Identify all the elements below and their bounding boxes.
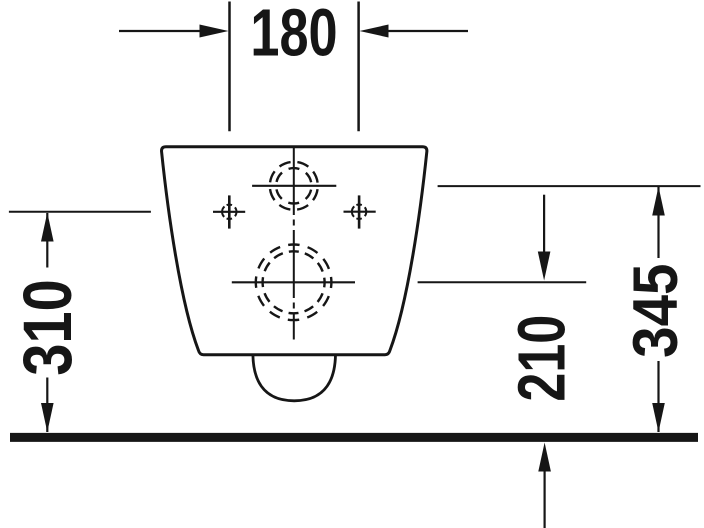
- dim 345: top extension line: [438, 185, 701, 187]
- lower hole inner dashed circle: [263, 251, 325, 313]
- dim text 345: [620, 264, 691, 358]
- dim 310: extension line: [9, 211, 151, 213]
- dim 345: dimension line: [657, 187, 659, 433]
- dim 310: dimension line: [46, 213, 48, 432]
- dim 210: down arrowhead: [538, 252, 551, 281]
- dim 210: lower pointer line below floor: [543, 470, 545, 528]
- dim text 310: [8, 279, 86, 376]
- left fixing hole crosshair: [213, 195, 245, 228]
- dim 210: extension line at drain center: [418, 281, 587, 283]
- dim 345: down arrowhead: [652, 403, 665, 432]
- floor line: [10, 433, 698, 442]
- dim 180: left extension line: [228, 2, 231, 132]
- outlet U shape: [253, 355, 336, 401]
- dim text 210: [504, 315, 579, 402]
- lower hole horizontal centerline: [232, 281, 355, 283]
- dim 210: upper pointer line: [543, 195, 545, 253]
- dim 345: up arrowhead: [652, 187, 665, 216]
- lower hole outer dashed circle: [256, 244, 332, 320]
- dim 180: right extension line: [357, 2, 360, 132]
- dim 310: up arrowhead: [41, 213, 54, 242]
- svg-text:345: 345: [620, 264, 691, 358]
- toilet body outline: [162, 147, 427, 355]
- right fixing hole crosshair: [344, 195, 376, 228]
- dim 310: down arrowhead: [41, 403, 54, 432]
- white masks behind rotated dimension texts: [21, 268, 73, 378]
- dim text 180: [250, 0, 337, 70]
- vertical dashed centerline: [293, 147, 295, 340]
- upper hole inner dashed circle: [276, 168, 311, 203]
- dim 210: up arrowhead below floor: [538, 443, 551, 472]
- dim 180: left arrow: [119, 30, 201, 32]
- svg-text:210: 210: [504, 315, 579, 402]
- svg-text:310: 310: [8, 279, 86, 376]
- svg-text:180: 180: [250, 0, 337, 70]
- upper hole outer dashed circle: [270, 162, 318, 210]
- dim 180: right arrow: [389, 30, 469, 32]
- upper hole horizontal centerline: [252, 185, 336, 187]
